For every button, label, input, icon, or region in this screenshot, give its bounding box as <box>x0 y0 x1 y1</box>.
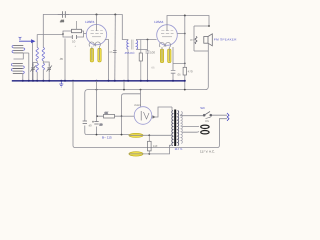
node dot x=96.5 y=134.3 <box>96 134 98 136</box>
wire L1 bottom to ground bus <box>22 74 24 81</box>
V2 heater loops <box>159 42 170 47</box>
wire VC2 to bus <box>48 72 50 80</box>
bus node dots <box>22 80 186 82</box>
plus sign C7 <box>92 121 94 123</box>
svg-text:12BA6: 12BA6 <box>154 20 164 24</box>
loop antenna L1 upper winding <box>12 45 25 53</box>
V3 cathode bar <box>140 111 142 121</box>
power transformer T2 right winding outer <box>181 112 182 144</box>
T1 right winding bottom lead <box>136 48 147 50</box>
power transformer T2 core bar <box>174 110 176 147</box>
V1 heater pin highlight left <box>90 48 93 62</box>
variable capacitor VC1 <box>30 63 36 72</box>
svg-text:.05: .05 <box>59 57 64 61</box>
node dot x=124 y=89.6 <box>123 89 125 91</box>
output transformer OT primary squiggle <box>195 37 197 44</box>
AC plug prong 1 <box>201 125 209 128</box>
resistor R3 box <box>183 67 186 75</box>
V2 plate side wire to x=187 <box>177 33 185 35</box>
V1 heater pin wires <box>92 47 100 61</box>
svg-text:117 V.: 117 V. <box>175 147 183 151</box>
wire rectifier left lead <box>122 115 135 117</box>
rectifier tube V3 35W4 envelope <box>134 107 152 125</box>
node dot x=184.8 y=89.6 <box>184 89 186 91</box>
V1 cathode line <box>92 36 101 38</box>
V3 filament vee <box>144 112 150 119</box>
resistor R2 drop to bus <box>140 40 142 54</box>
heater tap wire with highlight oval 1 <box>129 133 143 137</box>
svg-text:100: 100 <box>150 51 155 55</box>
power transformer T2 right winding inner <box>178 111 179 146</box>
V2 plate lead <box>166 16 168 32</box>
V1 heater loops <box>89 42 100 47</box>
T1 left winding top lead <box>127 39 128 42</box>
svg-text:SW.: SW. <box>200 106 205 110</box>
V2 heater pin wires <box>162 47 169 62</box>
grid leak network R1 C2 parallel <box>62 21 86 39</box>
node dot top bus x=96.5 <box>96 14 98 16</box>
wire B- y=134.3 <box>87 134 129 136</box>
wire x=86.3 drop with cap C6 <box>85 126 87 135</box>
capacitor C6 plates <box>83 121 87 124</box>
svg-text:PM SPEAKER: PM SPEAKER <box>214 38 237 42</box>
node dot heater tap 1 <box>148 134 150 136</box>
T1 right winding top lead to V2 grid <box>136 39 156 42</box>
svg-text:117 V. A.C.: 117 V. A.C. <box>200 149 215 153</box>
node dot x=121.5 y=116.2 <box>121 115 123 117</box>
wire right drop x=209 <box>208 16 210 27</box>
IF transformer T1 left winding blue <box>127 40 128 49</box>
switch SW1 lever <box>203 112 211 119</box>
switch SW1 on AC line <box>180 114 227 117</box>
svg-text:OT: OT <box>190 38 194 42</box>
IF transformer T1 core <box>132 40 133 50</box>
wire RC stub up <box>76 21 78 29</box>
wire rectifier plate drop x=140.5 <box>140 90 142 107</box>
node dot top bus x=115.3 <box>114 14 116 16</box>
V1 grid dashes <box>91 33 104 35</box>
variable capacitor VC2 <box>46 63 52 72</box>
IF transformer T1 right winding blue <box>136 40 137 49</box>
wire B y=93.8 with corner x=121.5 <box>122 94 141 97</box>
wire winding A top to grid wire <box>36 35 38 48</box>
resistor R1 box <box>72 29 82 32</box>
wire top bus y=14.5 <box>43 14 122 16</box>
V1 side wire to x=108.5 <box>105 40 109 81</box>
grid wire V1 y=34.5 <box>37 34 63 36</box>
node dot x=119 y=134.3 <box>121 134 123 136</box>
node dot x=97 y=116.2 <box>96 115 98 117</box>
svg-text:.05: .05 <box>60 19 64 23</box>
power transformer T2 left winding <box>172 111 173 146</box>
oscillator coil winding B blue <box>42 48 44 61</box>
V2 cathode drop x=172.5 with bypass cap <box>171 47 185 80</box>
wire winding B bottom to VC2 <box>43 61 49 64</box>
wire speaker return y=89.6 <box>85 44 209 122</box>
node dot x=209 y=26 <box>208 25 210 27</box>
chassis ground bus <box>12 80 186 82</box>
wire filter y=116.2 <box>97 115 122 117</box>
node dot heater tap 2 <box>148 153 150 155</box>
node RC left <box>62 33 64 35</box>
V2 grid dashes <box>161 33 174 35</box>
wire x=122.3 drop to IFT <box>122 15 126 40</box>
svg-text:40: 40 <box>89 124 93 128</box>
wire x=65 RC bottom to bus <box>64 39 66 81</box>
V2 heater pin highlight left <box>160 49 163 63</box>
oscillator coil winding A blue <box>36 48 38 61</box>
wire y=51 <box>194 50 208 52</box>
arrow mark on V3 right lead <box>153 115 156 119</box>
speaker SP1 <box>204 34 213 46</box>
node dot V2 grid wire <box>147 39 149 41</box>
V2 heater pin highlight right <box>168 49 171 63</box>
AC plug prong wire 1 <box>183 125 200 127</box>
T1 left winding bottom to bus <box>127 49 129 80</box>
heater tap wire with highlight oval 2 <box>129 152 143 156</box>
svg-text:ON: ON <box>205 120 209 123</box>
tube V1 12BE6 envelope <box>86 24 106 44</box>
AC plug prong wire 2 <box>183 131 200 134</box>
wire x=121.5 drop <box>121 97 123 135</box>
oscillator coil winding B lower half <box>42 63 44 70</box>
wire RC top branch <box>63 31 84 34</box>
AC plug prong 2 <box>201 131 209 134</box>
wire bus drop x=124 <box>123 81 125 90</box>
output transformer / speaker loop wires <box>194 16 210 52</box>
label LOOP blue <box>19 40 35 43</box>
svg-text:35W4: 35W4 <box>134 104 141 107</box>
node dot x=140.5 y=89.6 <box>140 89 142 91</box>
node dot x=96.5 y=89.6 <box>96 89 98 91</box>
capacitor C2 <box>72 35 76 39</box>
wire RC to grid <box>84 33 87 35</box>
resistor R5 between heater taps <box>148 135 150 154</box>
capacitor C5 on x=147.5 drop <box>146 40 150 81</box>
svg-text:.05: .05 <box>177 73 181 77</box>
wire x=187 drop with resistor R3 <box>184 16 186 68</box>
V1 plate lead <box>96 15 98 32</box>
V3 right lead with arrow <box>152 107 172 117</box>
wire x=96.5 bus to B- with cap C7 <box>96 81 98 135</box>
V1 heater pin highlight right <box>98 48 101 62</box>
tube V2 12BA6 envelope <box>157 25 178 46</box>
wire y=26 <box>194 25 209 27</box>
svg-text:12BE6: 12BE6 <box>85 20 95 24</box>
resistor R4 filter <box>104 114 115 118</box>
svg-text:455 KC: 455 KC <box>125 51 136 55</box>
wire x=194 drop <box>193 26 195 51</box>
capacitor C1 series on top bus <box>58 12 69 18</box>
blue connector marks line end <box>227 113 229 121</box>
capacitor C7 plates <box>94 122 98 125</box>
ground symbol blue below bus <box>59 82 63 88</box>
wire from L1 down-left jog <box>14 53 24 59</box>
wire left drop from top bus corner <box>42 15 44 48</box>
wire x=28.8 to bus <box>23 53 29 80</box>
svg-text:470: 470 <box>188 70 193 74</box>
oscillator coil winding A lower half <box>36 63 38 72</box>
wire VC1 to bus <box>32 72 34 80</box>
svg-text:B− 115: B− 115 <box>102 135 112 139</box>
capacitor C4 on x=114.8 wire <box>113 50 117 52</box>
wire winding A bottom to VC1 <box>33 61 37 64</box>
svg-text:10: 10 <box>72 40 76 44</box>
wire AC return left vertical x=73 <box>73 81 227 148</box>
loop antenna L1 lower winding <box>11 63 24 73</box>
svg-text:110: 110 <box>153 144 158 148</box>
V2 cathode line <box>162 36 172 38</box>
wire RC bottom branch <box>63 34 84 37</box>
node dot wire2 x=187 <box>184 15 186 17</box>
wire V2 plate to output y=15.5 <box>167 15 209 17</box>
wire x=32.4 to bus <box>31 43 33 81</box>
wire x=114.5 top bus to ground bus <box>114 15 117 81</box>
